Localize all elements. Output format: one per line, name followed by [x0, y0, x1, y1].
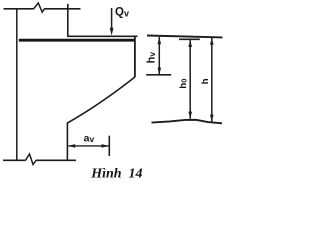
nib end face vertical — [134, 36, 136, 77]
wire: top break line left segment — [4, 8, 34, 10]
load arrow Qv head — [110, 28, 114, 36]
beam end face upper vertical — [67, 4, 69, 37]
a_v left arrowhead — [68, 144, 75, 148]
a_v right arrowhead — [102, 144, 109, 148]
reinforcement bar (thick) — [19, 39, 135, 42]
member left edge — [16, 8, 18, 161]
h_v bottom arrowhead — [158, 68, 162, 75]
dimension line h0 — [189, 40, 191, 119]
diagonal bottom chord of dapped end — [67, 77, 134, 123]
svg-text:Hình 14: Hình 14 — [90, 166, 142, 181]
extension T-bar for h0 — [179, 38, 200, 40]
svg-text:hv: hv — [145, 52, 157, 64]
svg-text:h: h — [200, 78, 211, 84]
wire: bottom break line left segment — [3, 159, 26, 161]
h_v bottom extension line — [146, 74, 171, 76]
h0 top arrowhead — [188, 40, 192, 47]
dimension line h_v — [158, 37, 160, 75]
svg-text:Qv: Qv — [115, 6, 129, 18]
break zigzag bottom — [26, 154, 37, 164]
section top line — [147, 36, 223, 38]
wire: top break line right segment — [44, 8, 80, 10]
lower end face vertical — [66, 123, 68, 161]
a_v extension bar under load point — [108, 136, 110, 156]
h top arrowhead — [210, 38, 214, 45]
dimension line a_v — [68, 145, 108, 147]
svg-text:h0: h0 — [178, 79, 189, 89]
wire: bottom break line right segment — [36, 159, 76, 161]
load arrow Qv shaft — [111, 8, 113, 30]
section bottom line — [152, 120, 223, 124]
h0 bottom arrowhead — [188, 112, 192, 119]
nib top edge — [67, 35, 137, 37]
svg-text:av: av — [84, 132, 95, 144]
h_v top arrowhead — [158, 37, 162, 44]
break zigzag top — [33, 3, 44, 12]
h bottom arrowhead — [210, 115, 214, 122]
dimension line h — [211, 38, 213, 122]
